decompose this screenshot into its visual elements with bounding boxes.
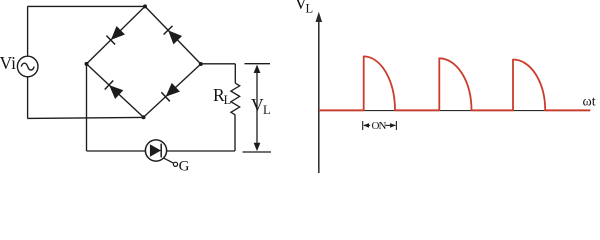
diode D3 bottom-left (cathode toward left node) xyxy=(105,80,124,99)
node bottom (junction dot) xyxy=(142,115,146,119)
wire bridge side bottom-left xyxy=(87,64,144,117)
wire bridge side top-left xyxy=(87,6,146,64)
wire right riser above resistor xyxy=(234,64,236,83)
wire right riser below resistor xyxy=(234,115,236,151)
wire bridge side top-right xyxy=(145,6,201,64)
svg-text:L: L xyxy=(263,103,271,117)
wire left lower (source down to bottom corner) xyxy=(27,77,29,119)
svg-text:L: L xyxy=(224,93,232,107)
y-axis VL xyxy=(318,17,320,173)
diode D1 top-left (cathode toward left node) xyxy=(106,26,125,45)
node right (junction dot) xyxy=(199,62,203,66)
waveform VL pulses (red) xyxy=(319,56,591,110)
diode D4 bottom-right (cathode toward bottom node) xyxy=(161,83,180,102)
ac source Vi xyxy=(17,56,38,77)
diode D2 top-right (cathode toward top node) xyxy=(164,26,183,45)
ON interval marker xyxy=(363,121,397,130)
svg-text:ωt: ωt xyxy=(583,95,596,110)
gate lead xyxy=(164,158,174,163)
gate terminal circle xyxy=(173,162,177,166)
wire left upper (top corner down to source) xyxy=(27,6,29,56)
svg-text:L: L xyxy=(306,1,314,15)
wire ac bottom (to bridge bottom node) xyxy=(27,117,143,118)
x-axis wt xyxy=(319,110,590,112)
wire left node down to SCR rail xyxy=(86,64,88,151)
svg-text:Vi: Vi xyxy=(0,53,16,73)
resistor RL xyxy=(231,83,240,115)
wire bridge side bottom-right xyxy=(144,64,201,117)
wire top (Vi top to bridge top node) xyxy=(27,5,145,7)
wire bottom rail left of SCR xyxy=(87,150,146,152)
node left (junction dot) xyxy=(85,62,89,66)
node top (junction dot) xyxy=(143,4,147,8)
VL measurement arrow (circuit) xyxy=(243,64,272,152)
thyristor SCR xyxy=(145,140,166,161)
svg-text:G: G xyxy=(179,159,190,174)
svg-text:ON: ON xyxy=(372,120,387,132)
wire bottom rail right of SCR xyxy=(167,150,235,152)
wire right node to resistor top xyxy=(201,63,236,65)
